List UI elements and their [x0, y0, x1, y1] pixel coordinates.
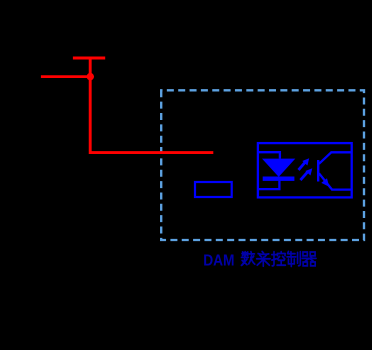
svg-text:DAM: DAM	[203, 253, 234, 270]
label glyph: 数	[241, 252, 254, 266]
optocoupler LED anode lead	[258, 152, 280, 158]
phototransistor emitter lead	[319, 173, 351, 189]
light arrow 2	[300, 168, 312, 180]
junction node	[87, 73, 94, 80]
label glyph: 采	[257, 251, 270, 266]
optocoupler LED cathode lead	[258, 180, 280, 189]
optocoupler LED triangle	[262, 159, 295, 177]
phototransistor collector lead	[319, 152, 351, 164]
power rail bar	[73, 57, 105, 60]
wire: branch left from junction	[41, 75, 90, 78]
light arrow 1	[299, 158, 310, 170]
DAM controller dashed enclosure	[161, 90, 364, 240]
label glyph: 控	[272, 252, 286, 266]
label glyph: 制	[287, 251, 300, 266]
wire: vertical drop from rail then right into DAM box	[90, 57, 213, 153]
optocoupler LED cathode bar	[263, 177, 295, 181]
resistor R (rectangle)	[195, 182, 232, 197]
phototransistor base bar	[317, 160, 319, 182]
optocoupler U body	[258, 143, 352, 197]
label glyph: 器	[302, 252, 316, 266]
emitter arrowhead	[321, 178, 329, 187]
